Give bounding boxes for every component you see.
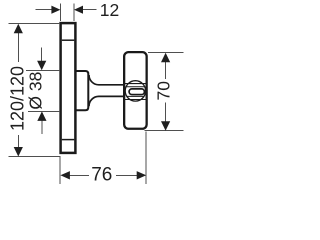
arrow 120/120 bottom (points down) [14,147,23,157]
boss chord line upper inner [127,86,145,88]
svg-text:120/120: 120/120 [7,66,27,131]
handle flare bottom [89,96,124,106]
boss circle [125,81,145,101]
dim 12 ext line right [73,4,75,22]
svg-text:70: 70 [154,81,174,101]
arrow 70 top (points up) [161,53,170,63]
dim 70 line lower seg [165,103,167,122]
arrow 120/120 top (points up) [14,24,23,34]
dim 12 ext line left [59,4,61,22]
wall plate (square escutcheon edge-on) [61,23,76,153]
dim o38 leader bottom [41,120,43,135]
boss chord line lower inner [127,95,145,97]
dim 120/120 line lower seg [17,135,19,148]
arrow 12 right (points left) [74,6,83,14]
dim 120/120 ext bottom [9,156,60,158]
dim 70 line upper seg [165,62,167,79]
dim o38 ext top [26,69,60,71]
dim o38 ext bottom [28,110,60,112]
arrow 70 bottom (points down) [161,121,170,131]
plate divider top [62,39,75,41]
dim 76 ext left [59,156,61,184]
arrow o38 top (points down) [37,61,46,71]
dim 12 leader left [35,9,52,11]
svg-text:76: 76 [91,165,112,185]
dim o38 leader top [41,48,43,63]
svg-text:12: 12 [100,0,119,20]
dim 12 leader right [82,9,96,11]
dim 76 line right seg [116,174,137,176]
plate divider bottom [62,139,75,141]
arrow 76 left (points left) [60,171,70,179]
boss chord line upper outer [125,83,146,85]
arrow 12 left (points right) [51,6,60,14]
dim 120/120 ext top [9,23,60,25]
dim 76 line left seg [70,174,89,176]
dim 70 ext bottom [144,130,183,132]
handle bar (end view) [124,52,146,129]
svg-text:Ø 38: Ø 38 [26,72,46,110]
dim 70 ext top [148,52,184,54]
handle flare top [89,75,124,85]
grip slot [129,89,144,95]
arrow o38 bottom (points up) [37,111,46,121]
dim 76 ext right [145,132,147,185]
boss chord line lower outer [125,99,146,101]
dim 120/120 line upper seg [17,32,19,62]
arrow 76 right (points right) [137,171,147,179]
rosette [77,71,89,110]
